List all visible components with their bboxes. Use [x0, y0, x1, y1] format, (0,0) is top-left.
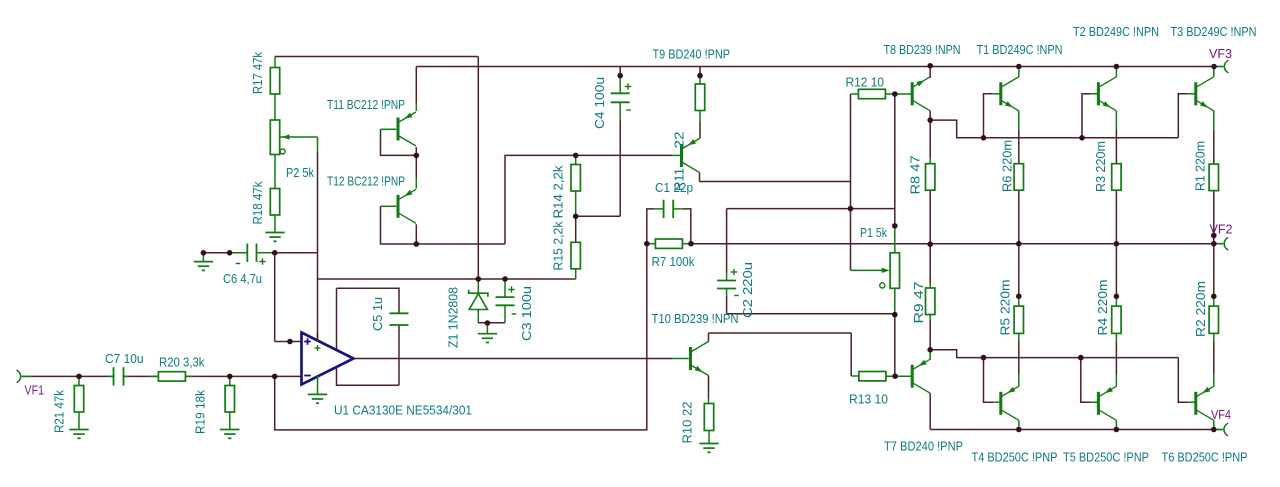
svg-text:R5 220m: R5 220m	[998, 280, 1013, 336]
svg-text:R19 18k: R19 18k	[193, 390, 208, 434]
svg-text:VF4: VF4	[1211, 407, 1231, 422]
svg-text:T6 BD250C !PNP: T6 BD250C !PNP	[1162, 450, 1248, 465]
svg-text:R12 10: R12 10	[846, 75, 885, 90]
svg-text:T3 BD249C !NPN: T3 BD249C !NPN	[1171, 24, 1257, 39]
svg-text:R6 220m: R6 220m	[999, 140, 1014, 192]
svg-text:C3 100u: C3 100u	[519, 286, 534, 341]
svg-text:T11 BC212 !PNP: T11 BC212 !PNP	[327, 97, 405, 112]
svg-text:R18 47k: R18 47k	[250, 181, 265, 224]
svg-text:R13 10: R13 10	[849, 392, 888, 407]
svg-text:T4 BD250C !PNP: T4 BD250C !PNP	[972, 450, 1058, 465]
svg-text:T9 BD240 !PNP: T9 BD240 !PNP	[653, 47, 731, 62]
svg-text:C5 1u: C5 1u	[370, 297, 385, 331]
svg-text:T5 BD250C !PNP: T5 BD250C !PNP	[1063, 450, 1149, 465]
svg-text:R1 220m: R1 220m	[1193, 141, 1208, 191]
svg-text:R10 22: R10 22	[680, 402, 695, 444]
svg-text:R21 47k: R21 47k	[52, 390, 67, 433]
svg-text:C2 220u: C2 220u	[740, 262, 755, 318]
svg-text:U1 CA3130E NE5534/301: U1 CA3130E NE5534/301	[334, 403, 472, 418]
svg-text:22: 22	[672, 132, 687, 149]
svg-text:T8 BD239 !NPN: T8 BD239 !NPN	[884, 42, 961, 57]
svg-text:R15 2,2k: R15 2,2k	[551, 221, 566, 270]
svg-text:P1 5k: P1 5k	[860, 225, 887, 240]
svg-text:C6 4,7u: C6 4,7u	[223, 271, 262, 286]
svg-text:Z1 1N2808: Z1 1N2808	[446, 287, 461, 348]
svg-text:R11: R11	[672, 168, 687, 191]
svg-text:T1 BD249C !NPN: T1 BD249C !NPN	[977, 42, 1063, 57]
svg-text:C4 100u: C4 100u	[592, 77, 607, 129]
svg-text:R20 3,3k: R20 3,3k	[159, 355, 205, 370]
svg-text:R3 220m: R3 220m	[1093, 141, 1108, 192]
svg-text:R7 100k: R7 100k	[652, 254, 695, 269]
svg-text:T7 BD240 !PNP: T7 BD240 !PNP	[884, 439, 963, 454]
svg-text:VF2: VF2	[1210, 222, 1233, 237]
svg-text:P2 5k: P2 5k	[286, 165, 314, 180]
svg-text:R4 220m: R4 220m	[1095, 280, 1110, 336]
svg-text:R14 2,2k: R14 2,2k	[551, 165, 566, 218]
svg-text:R2 220m: R2 220m	[1193, 281, 1208, 337]
svg-text:T2 BD249C !NPN: T2 BD249C !NPN	[1073, 24, 1159, 39]
svg-text:R17 47k: R17 47k	[250, 52, 265, 94]
svg-text:VF3: VF3	[1209, 46, 1232, 61]
svg-text:T10 BD239 !NPN: T10 BD239 !NPN	[652, 311, 739, 326]
svg-text:R8 47: R8 47	[908, 156, 923, 195]
svg-text:VF1: VF1	[25, 383, 45, 398]
svg-text:R9 47: R9 47	[911, 282, 926, 324]
svg-text:T12 BC212 !PNP: T12 BC212 !PNP	[327, 174, 405, 189]
svg-text:C7 10u: C7 10u	[105, 351, 144, 366]
